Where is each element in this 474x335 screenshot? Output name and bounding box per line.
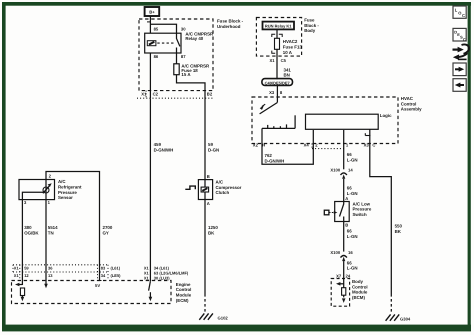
svg-text:15 A: 15 A — [181, 72, 191, 77]
svg-text:762: 762 — [265, 153, 273, 158]
svg-text:Sensor: Sensor — [58, 195, 73, 200]
svg-text:C49/DE5/DE7: C49/DE5/DE7 — [265, 80, 291, 85]
svg-text:A: A — [345, 196, 348, 201]
fuse A/C CMPRSR Fuse 18 15 A — [174, 63, 210, 77]
svg-text:(BCM): (BCM) — [352, 295, 365, 300]
icon jump arrows — [453, 44, 470, 60]
svg-text:66: 66 — [347, 186, 352, 191]
svg-text:459: 459 — [154, 142, 162, 147]
svg-text:Switch: Switch — [353, 212, 367, 217]
svg-text:8: 8 — [280, 90, 283, 95]
svg-text:85: 85 — [154, 27, 159, 32]
svg-text:TN: TN — [48, 231, 54, 236]
svg-text:1: 1 — [48, 200, 51, 205]
svg-text:HVAC2: HVAC2 — [283, 39, 298, 44]
inline connector X100 pin 14 — [330, 168, 353, 179]
svg-text:L-GN: L-GN — [347, 266, 358, 271]
svg-text:550: 550 — [395, 224, 403, 229]
svg-text:Relay 40: Relay 40 — [185, 36, 203, 41]
svg-text:GY: GY — [103, 231, 109, 236]
A/C Compressor Clutch — [185, 174, 241, 206]
svg-text:Control: Control — [401, 101, 417, 106]
wire relay pin 86 down — [149, 53, 151, 98]
ECM internal pull resistor and ground on 380 — [15, 283, 25, 302]
BCM internal resistor and ground — [336, 279, 346, 303]
svg-text:BK: BK — [208, 231, 215, 236]
wire logic to X4 1 — [343, 130, 345, 144]
svg-text:X1: X1 — [144, 276, 150, 281]
svg-text:B2: B2 — [207, 91, 213, 96]
svg-text:83: 83 — [101, 266, 106, 271]
svg-text:X100: X100 — [330, 250, 340, 255]
svg-text:D-GN: D-GN — [208, 148, 219, 153]
svg-text:X4: X4 — [304, 143, 310, 148]
svg-text:D-GN/WH: D-GN/WH — [154, 148, 174, 153]
svg-text:A/C Low: A/C Low — [353, 201, 371, 206]
svg-text:66: 66 — [347, 260, 352, 265]
svg-text:BN: BN — [284, 73, 290, 78]
wire fuse F13 out through X1 C5 — [269, 49, 291, 79]
svg-text:Fuse F13: Fuse F13 — [283, 45, 303, 50]
ECM connector rows X1 59/36/83 and 12/13/34 — [13, 265, 121, 280]
svg-text:H: H — [262, 143, 265, 148]
button LOC — [453, 6, 466, 18]
logic module — [306, 113, 393, 129]
sensor B1 A/C Refrigerant Pressure Sensor — [19, 173, 82, 205]
svg-text:Control: Control — [176, 287, 192, 292]
svg-text:L-GN: L-GN — [347, 234, 358, 239]
svg-text:(L61): (L61) — [111, 266, 121, 271]
svg-text:341: 341 — [284, 67, 292, 72]
svg-text:X1: X1 — [141, 91, 147, 96]
button forward arrow — [453, 63, 466, 76]
svg-text:66: 66 — [347, 229, 352, 234]
svg-text:D-GN/WH: D-GN/WH — [265, 159, 285, 164]
svg-text:X3: X3 — [269, 90, 275, 95]
svg-text:Control: Control — [352, 284, 368, 289]
svg-text:X1: X1 — [14, 266, 20, 271]
svg-text:X2: X2 — [253, 143, 259, 148]
HVAC mode switch blade — [260, 103, 278, 114]
ECM pins for wire 459 — [144, 265, 189, 280]
svg-text:B: B — [345, 222, 348, 227]
svg-text:2: 2 — [315, 143, 318, 148]
wire 59 D-GN to clutch — [205, 98, 219, 179]
svg-text:X1: X1 — [14, 273, 20, 278]
wire 459 D-GN/WH — [150, 98, 173, 281]
svg-text:59: 59 — [24, 266, 29, 271]
svg-text:5V: 5V — [95, 283, 100, 288]
svg-text:Module: Module — [352, 290, 368, 295]
svg-text:C5: C5 — [281, 58, 287, 63]
fuse block body box — [256, 18, 319, 57]
ECM box Engine Control Module — [12, 281, 192, 304]
wire logic to X3 C with case tick — [365, 129, 370, 143]
fuse HVAC2 Fuse F13 10 A — [275, 38, 303, 55]
HVAC bottom pin labels — [253, 143, 376, 149]
svg-text:36: 36 — [48, 266, 53, 271]
ECM internal switch on 459 — [149, 281, 153, 301]
wire 380 OG/BK from sensor pin 3 — [22, 200, 39, 285]
connector row X1 C2 B2 — [137, 91, 214, 99]
svg-text:Compressor: Compressor — [216, 185, 242, 190]
svg-text:1250: 1250 — [208, 225, 218, 230]
wire B+ to relay pins 85 and 30 — [147, 16, 177, 33]
wire fuse to terminal B2 — [177, 75, 206, 99]
wire 66 L-GN to BCM X7 24 — [336, 260, 357, 278]
svg-text:Pressure: Pressure — [58, 190, 77, 195]
svg-text:86: 86 — [154, 54, 159, 59]
svg-text:G102: G102 — [218, 316, 229, 321]
svg-text:A/C: A/C — [58, 179, 66, 184]
svg-text:Module: Module — [176, 293, 192, 298]
svg-text:C: C — [372, 143, 375, 148]
svg-text:L-GN: L-GN — [347, 158, 358, 163]
svg-text:Engine: Engine — [176, 282, 191, 287]
svg-text:C: C — [463, 37, 466, 42]
svg-text:Body: Body — [352, 279, 364, 284]
svg-text:66: 66 — [347, 152, 352, 157]
relay RUN Relay K1 — [263, 22, 295, 30]
ECM internal ground arrow on 5514 — [44, 284, 48, 289]
svg-text:(LE5): (LE5) — [111, 273, 122, 278]
svg-text:3: 3 — [24, 200, 27, 205]
svg-text:RUN Relay K1: RUN Relay K1 — [265, 24, 292, 29]
wire 66 L-GN from switch pin B — [344, 222, 358, 252]
wire logic to X4 2 — [312, 130, 314, 144]
wire 66 L-GN from pin 1 — [344, 144, 358, 170]
BCM box Body Control Module — [331, 279, 368, 307]
HVAC switch contact comb — [262, 115, 295, 128]
relay U1 A/C CMPRSR Relay 40 — [145, 27, 214, 59]
ground G304 — [386, 314, 411, 321]
svg-text:L-GN: L-GN — [347, 191, 358, 196]
node 5V reference termination — [95, 281, 102, 289]
svg-text:Logic: Logic — [380, 113, 392, 118]
svg-text:2: 2 — [49, 173, 52, 178]
HVAC control assembly box — [252, 96, 422, 144]
wire to HVAC pin X3 8 — [269, 86, 283, 103]
wire 550 BK from X3 C to ground — [370, 144, 403, 315]
wire relay pin 87 to fuse — [176, 53, 178, 64]
svg-text:Assembly: Assembly — [401, 107, 422, 112]
svg-text:X3: X3 — [364, 143, 370, 148]
svg-text:Underhood: Underhood — [217, 24, 241, 29]
svg-text:30 (LU3): 30 (LU3) — [154, 276, 170, 281]
fuse block underhood box — [139, 19, 244, 91]
button back arrow — [453, 79, 466, 92]
inline connector X100 pin 16 — [330, 250, 353, 261]
svg-text:A: A — [207, 201, 210, 206]
svg-text:B: B — [207, 174, 210, 179]
svg-text:16: 16 — [348, 250, 353, 255]
svg-text:X100: X100 — [330, 168, 340, 173]
battery feed B+ — [145, 7, 160, 16]
svg-text:5514: 5514 — [48, 225, 58, 230]
svg-text:Refrigerant: Refrigerant — [58, 185, 82, 190]
splice pack C49/DE5/DE7 — [262, 79, 293, 86]
svg-text:C2: C2 — [153, 91, 159, 96]
svg-text:12: 12 — [24, 273, 29, 278]
svg-text:2700: 2700 — [103, 225, 113, 230]
svg-text:Pressure: Pressure — [353, 207, 372, 212]
wire 1250 BK to ground — [205, 200, 218, 314]
svg-text:A/C: A/C — [216, 180, 224, 185]
svg-text:Block -: Block - — [304, 23, 319, 28]
svg-text:380: 380 — [24, 225, 32, 230]
wire 66 L-GN to pressure switch pin A — [344, 179, 358, 202]
svg-text:BK: BK — [395, 229, 402, 234]
button DESC — [453, 28, 466, 42]
svg-text:B+: B+ — [149, 9, 155, 14]
ground G102 — [199, 313, 228, 320]
svg-text:G304: G304 — [400, 317, 411, 322]
switch S1 A/C Low Pressure Switch — [324, 196, 372, 227]
svg-text:Fuse: Fuse — [304, 18, 315, 23]
svg-text:13: 13 — [48, 273, 53, 278]
svg-text:14: 14 — [348, 168, 353, 173]
wire comb to X2 H — [261, 128, 263, 143]
svg-text:87: 87 — [181, 54, 186, 59]
svg-text:Clutch: Clutch — [216, 190, 230, 195]
svg-text:Body: Body — [304, 28, 316, 33]
svg-text:1: 1 — [346, 143, 349, 148]
wire 762 D-GN/WH loop X2 H to X4 2 — [262, 144, 313, 165]
svg-text:34: 34 — [101, 273, 106, 278]
svg-text:HVAC: HVAC — [401, 96, 414, 101]
svg-text:OG/BK: OG/BK — [24, 231, 39, 236]
svg-text:X1: X1 — [269, 58, 275, 63]
svg-text:Fuse Block -: Fuse Block - — [217, 19, 244, 24]
svg-text:59: 59 — [208, 142, 213, 147]
svg-text:10 A: 10 A — [283, 50, 293, 55]
wire 2700 GY from sensor pin 2 — [46, 172, 113, 281]
wire RUN relay to fuse F13 — [272, 29, 282, 38]
svg-text:(ECM): (ECM) — [176, 298, 189, 303]
wire 5514 TN from sensor pin 1 — [46, 200, 58, 284]
svg-text:C: C — [462, 13, 465, 18]
